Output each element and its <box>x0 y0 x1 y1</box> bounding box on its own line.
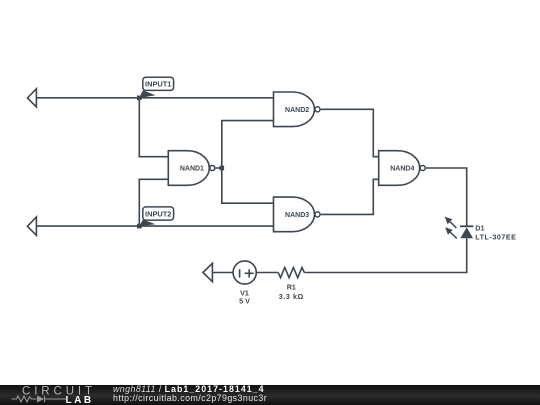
wire NAND1 output to node <box>216 167 222 169</box>
wire LED anode to bottom net <box>304 238 466 272</box>
svg-text:NAND4: NAND4 <box>390 166 414 173</box>
wire INPUT2 to NAND1 input B <box>139 179 168 226</box>
footer bar <box>0 385 540 405</box>
wire INPUT2 net horizontal <box>36 225 273 227</box>
wire INPUT1 to NAND1 input A <box>139 98 168 157</box>
svg-text:NAND3: NAND3 <box>285 212 309 219</box>
node INPUT1 junction <box>137 96 142 101</box>
node NAND1 output junction <box>220 166 225 171</box>
voltage source V1 <box>233 261 256 305</box>
wire NAND3 output to NAND4 input B <box>321 179 379 214</box>
svg-text:3.3 kΩ: 3.3 kΩ <box>279 292 304 301</box>
label box INPUT1 <box>143 77 174 90</box>
footer CircuitLab logo <box>0 385 100 405</box>
output terminal V1 arrow <box>203 263 212 281</box>
svg-text:R1: R1 <box>287 282 296 291</box>
wire NAND2 output to NAND4 input A <box>321 109 379 156</box>
nand gate NAND4 <box>379 151 426 186</box>
nand gate NAND3 <box>274 197 321 232</box>
nand gate NAND2 <box>274 92 321 127</box>
label flag INPUT1 <box>139 90 155 98</box>
svg-text:INPUT1: INPUT1 <box>145 80 171 89</box>
LED D1 light arrow upper <box>445 217 457 228</box>
label flag INPUT2 <box>139 220 155 227</box>
svg-text:LAB: LAB <box>66 395 94 405</box>
svg-text:D1: D1 <box>475 223 484 232</box>
label box INPUT2 <box>143 207 174 220</box>
nand gate NAND1 <box>168 151 215 186</box>
wire NAND1 output to NAND3 input A <box>222 168 274 203</box>
node INPUT2 junction <box>137 224 142 229</box>
wire NAND1 output to NAND2 input B <box>222 121 274 168</box>
svg-text:NAND2: NAND2 <box>285 107 309 114</box>
wire V1 to terminal <box>212 272 233 274</box>
svg-text:NAND1: NAND1 <box>180 166 204 173</box>
wire NAND4 output to LED cathode <box>426 168 467 226</box>
LED D1 light arrow lower <box>445 227 457 238</box>
LED D1 <box>460 226 473 238</box>
resistor R1 <box>256 268 304 302</box>
footer text <box>113 385 513 404</box>
svg-text:INPUT2: INPUT2 <box>145 209 171 218</box>
input terminal INPUT2 arrow <box>27 217 36 235</box>
svg-text:5 V: 5 V <box>239 296 250 305</box>
wire INPUT1 net horizontal <box>36 97 273 99</box>
svg-text:LTL-307EE: LTL-307EE <box>475 232 516 241</box>
input terminal INPUT1 arrow <box>27 89 36 107</box>
